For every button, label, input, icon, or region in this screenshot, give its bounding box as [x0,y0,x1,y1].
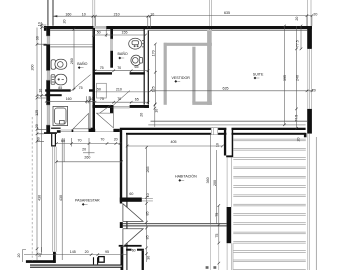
bottom chain 145/20/95 [24,254,127,256]
right wall window [308,49,312,109]
top wall inner face line [50,30,307,32]
svg-text:75: 75 [215,234,219,238]
vestidor closet top band [164,43,212,46]
small wall block left of door1 [72,129,74,132]
svg-text:50: 50 [97,31,101,35]
stairs treads [233,139,305,269]
bath1 bottom wall right segment [89,89,95,91]
svg-text:VESTIDOR: VESTIDOR [172,76,191,80]
tub room 160/10 dim [46,96,95,103]
bath2 bottom wall [95,72,112,74]
corridor bottom wall segment right [113,129,119,132]
svg-text:10: 10 [155,109,159,113]
265 dim [145,146,148,199]
room label pasar estar [75,199,100,206]
closet 170/125 dims [154,44,156,104]
right vertical chain 240 [296,26,298,128]
sink bath2 [129,38,145,49]
stairs left boundary [232,243,234,270]
bath1 door swing [71,75,90,91]
svg-text:75: 75 [79,86,83,90]
corridor door triangle left [73,113,88,128]
habitacion left wall lower [121,247,124,270]
hall 210 dim [96,91,149,93]
svg-text:430: 430 [38,195,42,201]
svg-text:20: 20 [85,250,89,254]
toilet bath2 [131,55,143,65]
left window band of pasar room [52,147,56,252]
svg-text:635: 635 [224,11,230,15]
bath2 left wall [110,28,113,68]
bidet bath1 [51,74,67,85]
right exterior wall lower segment [307,109,312,134]
top exterior wall [46,26,312,29]
svg-text:30: 30 [146,256,150,260]
corridor bottom wall (left block) [44,132,57,134]
second interior vertical chain 430 [62,138,64,260]
svg-text:20: 20 [312,89,316,93]
door triangle lower [123,229,143,247]
room label habitacion [175,174,197,182]
corridor door triangle right [97,113,114,128]
360 dim [209,134,211,270]
svg-text:50: 50 [97,87,101,91]
channel cap [226,155,233,157]
second wall line near left wall [126,134,128,270]
left wall window 2 [46,71,50,81]
corridor bottom wall segment 2 [57,130,61,133]
U stub at bottom [94,257,98,264]
svg-text:20: 20 [63,20,67,24]
vestidor right band [207,30,212,105]
svg-text:635: 635 [223,87,229,91]
small left bottom dim lines [23,247,42,262]
left vertical chain [37,22,46,260]
svg-text:360: 360 [206,177,210,183]
right vertical chain 395 [284,26,286,125]
foot of that wall [89,128,95,131]
vestidor closet inner band [192,47,195,103]
svg-text:210: 210 [116,88,122,92]
svg-text:10: 10 [216,143,220,147]
top chain arrow [53,15,58,17]
habitacion right wall lower [227,207,232,243]
stub down at right end of wall [304,133,307,137]
svg-text:60: 60 [132,248,136,252]
635 top dimension [150,16,312,26]
svg-text:20: 20 [17,254,21,258]
corridor wall foot [89,129,96,132]
left wall window 1 [46,36,50,44]
svg-text:20: 20 [313,13,317,17]
200 dim [216,150,218,224]
bath1 260 dim [73,29,75,89]
svg-text:75: 75 [215,213,219,217]
svg-text:SUITE: SUITE [253,73,264,77]
svg-text:20: 20 [140,113,144,117]
right boundary lines below [308,134,310,270]
svg-text:405: 405 [171,140,177,144]
svg-text:160: 160 [65,12,71,16]
svg-text:70: 70 [100,137,104,141]
bottom wall with gray core [30,265,122,267]
room label vestidor [172,76,191,83]
right 77.5 upper [300,26,302,49]
vestidor closet bottom connector [192,101,212,104]
50 / 155 sub chain [93,30,145,38]
svg-text:HABITACIÓN: HABITACIÓN [175,174,197,179]
svg-text:77.5: 77.5 [295,40,299,47]
svg-text:70: 70 [78,138,82,142]
svg-text:10: 10 [90,97,94,101]
stub down from corridor wall (hollow) [51,134,56,146]
svg-text:10: 10 [37,22,41,26]
top chain ticks [92,15,152,18]
hall door swing down-left [99,105,111,114]
svg-text:20: 20 [114,137,118,141]
toilet bath1 [51,59,67,69]
thin continuation of hall bottom wall [114,106,130,108]
405 dim habitacion [127,145,222,147]
slot in middle wall [226,127,231,135]
riser lines above vestidor band [93,0,311,30]
tiny bottom marks [206,266,217,269]
svg-text:10: 10 [146,193,150,197]
svg-text:125: 125 [151,86,155,92]
svg-text:70: 70 [117,66,121,70]
tub room top wall [45,94,62,96]
hall cabinet [97,83,107,98]
hall bottom wall corner stub [110,108,114,113]
property line right [315,137,317,270]
svg-text:395: 395 [283,75,287,81]
svg-text:430: 430 [59,195,63,201]
habitacion left wall upper [120,130,122,204]
sill lines left door area [61,130,114,132]
bath2 / suite dividing wall (double line) [144,28,148,105]
svg-text:210: 210 [114,12,120,16]
pasar estar dims 60/70/20/260 [57,138,121,156]
vestidor closet left band [164,43,167,105]
bottom-left step wall [26,260,56,263]
svg-text:75: 75 [100,97,104,101]
left exterior wall [46,26,50,134]
dashed overhang line [31,117,33,261]
column at bottom [99,257,105,263]
door stub lower with 60 [119,245,142,247]
75/75 dims right of partition [218,206,220,270]
top wall opening (50) [93,26,106,30]
shower glass line bath-top room [50,46,92,48]
svg-text:10: 10 [38,89,42,93]
room label banio2 [118,51,128,59]
svg-text:160: 160 [66,97,72,101]
corridor wall top edge line [51,128,61,129]
bath1 bottom wall left segment [45,89,70,91]
door stub upper with 60 [120,198,142,202]
middle 635 dim [151,90,312,92]
svg-text:30: 30 [36,36,40,40]
room label banio1 [77,61,87,69]
svg-text:20: 20 [297,138,301,142]
top chain line [53,16,151,28]
svg-text:200: 200 [31,65,35,71]
habitacion left wall nib [120,222,123,228]
channel right wall [232,130,234,156]
svg-text:30: 30 [38,253,42,257]
svg-text:85: 85 [146,212,150,216]
svg-text:60: 60 [61,139,65,143]
svg-text:20: 20 [295,17,299,21]
svg-text:20: 20 [82,147,86,151]
channel continuation lines [227,157,232,270]
passage right wall to bottom edge [142,251,144,270]
corner step top-left [44,26,46,31]
small fin at left wall [44,44,47,46]
svg-text:200: 200 [213,180,217,186]
hall bottom wall [92,105,113,108]
svg-text:PASAR/ESTAR: PASAR/ESTAR [75,199,100,203]
svg-text:65: 65 [135,65,139,69]
left wall window 3 [46,105,50,125]
right exterior wall upper segment [307,26,312,49]
svg-text:30: 30 [36,137,40,141]
svg-text:10: 10 [82,12,86,16]
svg-text:70: 70 [117,97,121,101]
svg-text:85: 85 [146,235,150,239]
svg-text:125: 125 [35,110,39,116]
svg-text:85: 85 [58,86,62,90]
wire risers above top wall [47,0,53,26]
svg-text:60: 60 [129,192,133,196]
svg-text:95: 95 [105,250,109,254]
svg-text:145: 145 [70,250,76,254]
main middle wall (habitacion top, double edge) [120,128,306,130]
middle partition wall (double) [123,224,227,226]
svg-text:BAÑO: BAÑO [77,61,87,66]
room label suite [253,73,264,80]
svg-text:75: 75 [100,66,104,70]
svg-text:20: 20 [35,124,39,128]
bath2 left wall glass [110,39,113,51]
svg-text:BAÑO: BAÑO [118,51,128,56]
gray wall layer left of corridor wall [89,96,91,129]
door triangle upper [123,204,143,222]
svg-text:260: 260 [70,58,74,64]
svg-text:240: 240 [295,75,299,81]
bathtub [53,106,68,125]
wall between bath1 and bath2 [93,28,96,129]
svg-text:155: 155 [122,31,128,35]
hall door swing up [114,91,130,105]
suite floor line [148,124,305,126]
svg-text:260: 260 [84,155,90,159]
svg-text:65: 65 [135,97,139,101]
slot for dim extensions in wall [211,128,218,135]
svg-text:77.5: 77.5 [294,115,298,122]
habitacion right wall upper [224,130,226,156]
svg-text:170: 170 [151,50,155,56]
